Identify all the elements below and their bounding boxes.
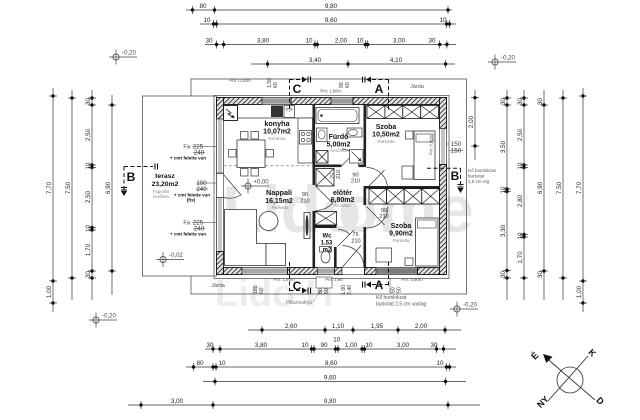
- svg-text:30: 30: [428, 37, 436, 44]
- svg-text:2,80: 2,80: [517, 194, 524, 207]
- svg-text:Pm: 0,90m: Pm: 0,90m: [429, 134, 434, 155]
- bottom wall pier: [288, 268, 318, 275]
- svg-text:2,00: 2,00: [468, 115, 475, 128]
- svg-text:3,30: 3,30: [500, 224, 507, 237]
- svg-text:30: 30: [430, 342, 438, 349]
- heat pump unit: [316, 277, 332, 288]
- svg-text:7,50: 7,50: [65, 181, 72, 194]
- section C top: [289, 79, 291, 112]
- bedroom window 180/60 in bottom wall: [376, 268, 418, 275]
- svg-text:10: 10: [517, 232, 524, 240]
- svg-text:Pm: 1,80m: Pm: 1,80m: [320, 89, 342, 94]
- svg-text:Járda: Járda: [211, 283, 226, 289]
- svg-text:10: 10: [203, 17, 211, 24]
- watermark Lido Home: [215, 172, 474, 315]
- svg-text:30: 30: [500, 98, 507, 106]
- bath toilet: [347, 128, 362, 137]
- bedroom2 desk: [376, 248, 392, 262]
- svg-text:10: 10: [301, 342, 309, 349]
- svg-text:9,80: 9,80: [325, 3, 338, 10]
- bottom dimension row 1: [248, 323, 461, 334]
- interior wall H3 bedroom divider: [366, 186, 440, 189]
- left dimension column 6,90: [105, 95, 116, 295]
- svg-text:Járda: Járda: [410, 84, 425, 90]
- svg-text:9,60: 9,60: [325, 17, 338, 24]
- svg-text:-0,20: -0,20: [463, 303, 477, 309]
- top dimension row 4: [251, 57, 455, 68]
- svg-text:1,00: 1,00: [46, 285, 53, 298]
- svg-text:2,40: 2,40: [347, 285, 353, 295]
- left dimension column 7,70: [46, 88, 57, 312]
- svg-text:10: 10: [85, 225, 92, 233]
- svg-text:80: 80: [196, 360, 204, 367]
- level mark -0,20 top right: [488, 55, 516, 70]
- svg-text:3,00: 3,00: [393, 37, 406, 44]
- svg-text:A: A: [375, 278, 384, 292]
- bathroom window 90/60 in top wall: [331, 98, 353, 105]
- svg-text:Pm: 3,90m: Pm: 3,90m: [401, 277, 423, 282]
- kitchen appliance box: [284, 106, 295, 118]
- kitchen/living dashed boundary: [224, 165, 313, 167]
- bedroom2 wardrobe xboxes: [369, 189, 387, 204]
- svg-text:Kerámia: Kerámia: [330, 148, 347, 153]
- svg-text:2,00: 2,00: [335, 37, 348, 44]
- interior wall V1 lower (wc west): [313, 211, 316, 268]
- right dimension column 7,50: [556, 90, 567, 300]
- svg-text:2,00: 2,00: [415, 323, 428, 330]
- washing machine with X: [316, 151, 328, 164]
- svg-text:Wc: Wc: [323, 234, 333, 240]
- entrance door 100/240 opening: [342, 268, 365, 275]
- living room armchair: [266, 244, 286, 266]
- door swing living to hall: [316, 186, 333, 211]
- left dimension column 7,50: [65, 90, 76, 300]
- svg-text:Szoba: Szoba: [391, 223, 412, 230]
- svg-text:210: 210: [300, 199, 309, 205]
- interior wall V3 lower: [364, 227, 367, 268]
- bedroom1 nightstand: [406, 131, 414, 139]
- svg-text:C: C: [293, 82, 302, 96]
- svg-text:1,10: 1,10: [332, 323, 345, 330]
- svg-text:B: B: [127, 170, 136, 184]
- svg-text:Parketta: Parketta: [271, 205, 289, 210]
- svg-text:D: D: [594, 395, 606, 407]
- top dimension row 3: [205, 37, 456, 48]
- svg-text:+ cmt felette van: + cmt felette van: [170, 156, 206, 161]
- bottom dimension row 5: [128, 398, 480, 409]
- left dimension column detail: [85, 90, 96, 300]
- svg-text:210: 210: [351, 179, 360, 185]
- svg-text:3,80: 3,80: [255, 342, 268, 349]
- bottom dimension row 2: [205, 342, 456, 353]
- svg-text:3,40: 3,40: [309, 57, 322, 64]
- right wall segment north: [440, 98, 447, 129]
- section B left: [124, 166, 153, 168]
- svg-text:2,50: 2,50: [85, 128, 92, 141]
- svg-text:2,50: 2,50: [517, 128, 524, 141]
- bottom wall pier east of entrance: [365, 268, 377, 275]
- svg-text:90: 90: [302, 192, 308, 198]
- svg-text:K: K: [586, 347, 598, 359]
- interior wall H1 bath south east part: [359, 165, 364, 168]
- svg-text:240: 240: [196, 186, 207, 193]
- svg-text:1,00: 1,00: [576, 285, 583, 298]
- svg-text:7,70: 7,70: [46, 181, 53, 194]
- bath door swing: [342, 149, 359, 166]
- svg-text:2,5 cm vtg: 2,5 cm vtg: [468, 179, 490, 184]
- stone cladding outline: [214, 96, 449, 279]
- bathtub: [316, 108, 359, 124]
- right dimension column detail b: [517, 90, 528, 300]
- bedroom2 door swing: [367, 207, 389, 229]
- svg-text:4,10: 4,10: [390, 57, 403, 64]
- terrace outline: [143, 96, 217, 276]
- svg-text:NY: NY: [535, 394, 551, 410]
- svg-text:Szoba: Szoba: [376, 124, 397, 131]
- svg-text:1,00: 1,00: [345, 342, 358, 349]
- svg-text:+0,00: +0,00: [253, 180, 269, 186]
- svg-text:10: 10: [517, 162, 524, 170]
- svg-text:30: 30: [85, 98, 92, 106]
- svg-text:10: 10: [85, 162, 92, 170]
- svg-text:Kerámia: Kerámia: [268, 136, 286, 141]
- washbasin: [317, 128, 328, 142]
- svg-text:30: 30: [537, 271, 544, 279]
- svg-text:Nappali: Nappali: [266, 188, 292, 197]
- svg-text:7,70: 7,70: [576, 181, 583, 194]
- left dimension column 1,00: [46, 0, 57, 305]
- compass rose: [529, 347, 606, 410]
- svg-text:Parketta: Parketta: [377, 139, 395, 144]
- terrace door swing: [224, 175, 242, 199]
- svg-text:30: 30: [500, 271, 507, 279]
- svg-text:60: 60: [345, 82, 351, 88]
- svg-text:É: É: [529, 350, 540, 361]
- svg-text:9,60: 9,60: [325, 360, 338, 367]
- hall closet below bath: [316, 169, 334, 187]
- bedroom2 bed: [416, 218, 439, 266]
- svg-text:23,20m2: 23,20m2: [152, 181, 179, 188]
- svg-text:10: 10: [356, 37, 364, 44]
- svg-text:+ cmt felette van: + cmt felette van: [170, 232, 206, 237]
- svg-text:előtér: előtér: [333, 190, 352, 197]
- interior wall H1 bath south west part: [315, 165, 342, 168]
- entrance door swing: [343, 246, 365, 268]
- svg-text:B: B: [451, 169, 460, 183]
- svg-text:3,00: 3,00: [171, 398, 184, 405]
- svg-text:60: 60: [273, 82, 279, 88]
- svg-text:9,60: 9,60: [324, 374, 337, 381]
- right dimension column 2,00: [468, 90, 479, 160]
- svg-text:210: 210: [351, 239, 360, 245]
- svg-text:konyha: konyha: [264, 119, 290, 128]
- svg-text:60: 60: [259, 288, 265, 294]
- bottom dimension row 4: [203, 374, 466, 385]
- svg-text:-0,20: -0,20: [102, 314, 116, 320]
- left wall corner block south: [217, 252, 224, 275]
- svg-text:75: 75: [352, 232, 358, 238]
- top wall segment west: [217, 98, 263, 105]
- section A top: [388, 80, 390, 113]
- svg-text:210: 210: [379, 214, 388, 220]
- svg-text:30: 30: [205, 37, 213, 44]
- living room round table: [259, 212, 278, 231]
- level mark -0,20 bottom left: [89, 313, 117, 328]
- sidewalk frame (Járda): [191, 79, 467, 294]
- svg-text:30: 30: [537, 98, 544, 106]
- svg-text:50: 50: [397, 287, 403, 293]
- wc toilet: [320, 247, 332, 253]
- svg-text:-0,20: -0,20: [501, 56, 515, 62]
- top wall segment east: [353, 98, 447, 105]
- svg-text:Fürdő: Fürdő: [329, 134, 349, 141]
- bedroom1 door swing: [367, 168, 388, 189]
- svg-text:terasz: terasz: [155, 173, 175, 180]
- svg-text:Fix: Fix: [183, 221, 190, 227]
- chimney block kitchen corner: [224, 106, 238, 121]
- svg-text:10,50m2: 10,50m2: [372, 132, 400, 139]
- level mark +0,00: [241, 179, 269, 194]
- hall closet xboxes: [315, 212, 337, 226]
- svg-text:2,50: 2,50: [85, 190, 92, 203]
- interior wall V3 upper: [364, 105, 367, 168]
- svg-text:6,90: 6,90: [105, 181, 112, 194]
- bottom dimension row 3: [186, 360, 456, 371]
- fixed window 225/240 upper left wall: [217, 119, 224, 173]
- dining table: [237, 140, 265, 168]
- dining chairs: [241, 132, 249, 140]
- svg-text:3,80: 3,80: [257, 37, 270, 44]
- svg-text:Kő homlokzat: Kő homlokzat: [376, 295, 407, 301]
- kitchen hob 4 rings: [300, 131, 312, 145]
- svg-text:10,07m2: 10,07m2: [263, 129, 291, 136]
- top wall segment middle: [291, 98, 331, 105]
- svg-text:80: 80: [199, 3, 207, 10]
- bedroom1 desk: [402, 166, 413, 179]
- interior wall V3 middle: [364, 186, 367, 205]
- svg-text:Kő homlokzat: Kő homlokzat: [468, 168, 497, 173]
- svg-text:A: A: [375, 82, 384, 96]
- right wall segment south: [440, 165, 447, 275]
- svg-text:30: 30: [85, 271, 92, 279]
- svg-text:3,00: 3,00: [397, 342, 410, 349]
- svg-text:10: 10: [500, 186, 507, 194]
- svg-text:9,80: 9,80: [324, 398, 337, 405]
- top dimension row 2: [200, 17, 456, 28]
- section B right: [427, 167, 461, 169]
- interior wall V1 kitchen/bath upper: [313, 105, 316, 186]
- interior wall V2 wc east: [334, 247, 337, 268]
- svg-text:m2: m2: [323, 248, 332, 254]
- living room window in bottom wall: [242, 268, 288, 275]
- kitchen counter top edge: [238, 117, 313, 119]
- svg-text:Hőszivattyú: Hőszivattyú: [286, 300, 312, 306]
- svg-text:-0,02: -0,02: [169, 253, 183, 259]
- svg-text:60: 60: [324, 288, 330, 294]
- svg-text:Pm: 1,80: Pm: 1,80: [325, 277, 343, 282]
- kitchen east counter: [298, 118, 313, 163]
- bedroom1 wardrobe xboxes: [367, 106, 385, 119]
- svg-text:10: 10: [305, 37, 313, 44]
- wc window 80/60 in bottom wall: [318, 268, 335, 275]
- window 150/150 in right wall: [440, 129, 447, 165]
- svg-text:2,60: 2,60: [285, 323, 298, 330]
- svg-text:9,90m2: 9,90m2: [389, 231, 413, 238]
- svg-text:10: 10: [439, 17, 447, 24]
- top dimension row 1: [186, 3, 452, 14]
- level mark -0,20 bottom right: [450, 302, 478, 317]
- svg-text:30: 30: [517, 98, 524, 106]
- svg-text:90: 90: [320, 342, 328, 349]
- svg-text:10: 10: [436, 360, 444, 367]
- svg-text:1,70: 1,70: [85, 243, 92, 256]
- svg-text:7,50: 7,50: [556, 181, 563, 194]
- svg-text:150: 150: [451, 148, 462, 155]
- living room L-sofa: [225, 210, 267, 266]
- terrace door 100/240 opening: [217, 174, 224, 198]
- kitchen sink unit dark: [271, 106, 283, 118]
- svg-text:1,95: 1,95: [371, 323, 384, 330]
- svg-text:Kerámia: Kerámia: [334, 203, 351, 208]
- right dimension column detail a: [500, 90, 511, 300]
- level mark -0,20 top left: [109, 50, 137, 65]
- bedroom1 bed: [414, 131, 435, 180]
- svg-text:1,70: 1,70: [517, 251, 524, 264]
- bedroom2 nightstand: [405, 258, 413, 266]
- section A bottom: [388, 262, 390, 288]
- svg-text:(fix): (fix): [187, 198, 196, 203]
- svg-text:210: 210: [336, 170, 342, 179]
- kitchen window 150/60 in top wall: [262, 98, 292, 105]
- shower tray with arrow: [350, 150, 364, 164]
- svg-text:Fix: Fix: [183, 145, 190, 151]
- svg-text:burkolat 2,5 cm vastag: burkolat 2,5 cm vastag: [376, 302, 427, 308]
- svg-text:3,50: 3,50: [500, 140, 507, 153]
- svg-text:6,90: 6,90: [537, 181, 544, 194]
- wc door swing: [338, 229, 355, 246]
- right dimension column 7,70: [576, 88, 587, 312]
- svg-text:C: C: [293, 279, 302, 293]
- bottom wall corner west: [224, 268, 243, 275]
- svg-text:10: 10: [365, 342, 373, 349]
- svg-text:16,15m2: 16,15m2: [265, 198, 293, 205]
- fixed window 225/240 lower left wall: [217, 198, 224, 252]
- svg-text:-0,20: -0,20: [122, 51, 136, 57]
- interior wall H4 wc north: [313, 225, 337, 228]
- svg-text:burkolat: burkolat: [468, 174, 485, 179]
- svg-text:10: 10: [333, 337, 341, 344]
- section C bottom: [289, 262, 291, 291]
- svg-text:10: 10: [218, 360, 226, 367]
- svg-text:Pm: 0,20m: Pm: 0,20m: [229, 78, 251, 83]
- svg-text:30: 30: [206, 342, 214, 349]
- svg-text:Parketta: Parketta: [392, 238, 410, 243]
- left wall corner block north: [217, 98, 224, 120]
- right dimension column 6,90: [537, 90, 548, 300]
- svg-text:kerámia: kerámia: [153, 194, 169, 199]
- level mark -0,02 terrace: [156, 252, 184, 267]
- tv board: [304, 213, 310, 239]
- bottom wall pier at entrance: [335, 268, 343, 275]
- bottom wall corner east: [418, 268, 440, 275]
- svg-text:1,53: 1,53: [321, 241, 333, 247]
